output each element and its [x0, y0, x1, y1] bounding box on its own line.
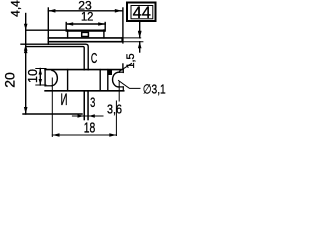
leader from box 44 — [138, 21, 142, 38]
dimension 10 ticks — [36, 68, 46, 70]
svg-text:18: 18 — [84, 120, 96, 136]
leader from 1,5 label to flange edge — [120, 64, 132, 72]
svg-text:20: 20 — [1, 72, 17, 88]
extension line from right slot down — [118, 82, 120, 101]
svg-text:3,6: 3,6 — [107, 102, 122, 117]
svg-text:С: С — [91, 50, 97, 67]
svg-text:4,4: 4,4 — [9, 0, 23, 17]
dimension 20 line — [24, 30, 28, 114]
package number box 44 — [127, 3, 156, 22]
short extension through 3,6 label — [115, 101, 117, 136]
right slot step — [120, 71, 124, 73]
flange lower view outline — [45, 70, 124, 91]
extension line left of 23 — [47, 8, 49, 44]
extension line right of 23 — [122, 8, 124, 43]
extension lines of 1,5 — [122, 37, 141, 39]
svg-text:12: 12 — [81, 12, 94, 24]
extension lines of 12 — [65, 23, 67, 32]
right mounting slot arc — [113, 72, 120, 87]
svg-text:∅3,1: ∅3,1 — [143, 81, 166, 96]
dimension 18 line — [52, 133, 116, 136]
dimension 23 line — [48, 9, 121, 13]
dimension 4,4 line with outside arrows — [24, 14, 28, 51]
svg-text:И: И — [61, 90, 68, 109]
cap outline in lower view — [68, 70, 112, 91]
dimension 10 line — [39, 69, 42, 86]
extension line 4,4 top (to cap top) — [26, 29, 68, 31]
flange (side view) — [48, 38, 122, 42]
dimension 1,5 arrows — [138, 31, 142, 52]
left mounting slot arc — [52, 70, 57, 85]
extension line 20 bottom — [23, 113, 82, 115]
extension line from left slot center — [51, 78, 53, 137]
svg-text:З: З — [90, 94, 95, 110]
key slot on cap — [82, 32, 89, 36]
lead Z (outlined flat lead below flange) — [84, 91, 89, 121]
cap (top of package, side view) — [68, 30, 104, 38]
extension stub right lower view — [122, 64, 124, 70]
lead C upper horizontal part (bent flat lead) — [21, 44, 88, 70]
lead width dimension arrows (3,6) — [72, 114, 103, 117]
svg-text:10: 10 — [26, 69, 40, 83]
leader line to hole dia 3,1 — [119, 81, 141, 89]
dimension 12 line — [66, 22, 105, 26]
svg-text:44: 44 — [133, 4, 151, 22]
